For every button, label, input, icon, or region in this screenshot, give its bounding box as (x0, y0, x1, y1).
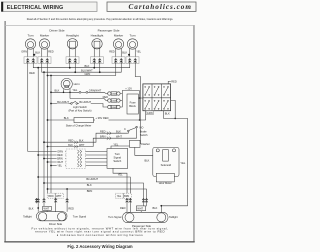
junction dot BLK passenger (128, 54, 130, 56)
svg-text:WHT: WHT (56, 195, 62, 198)
wire BRN/WHT butt row (47, 134, 137, 148)
state of charge meter row (47, 91, 140, 123)
svg-text:BLK: BLK (29, 206, 34, 210)
solenoid box SOL (153, 147, 179, 176)
svg-text:10 AMP: 10 AMP (111, 106, 118, 109)
svg-text:BLK: BLK (153, 206, 158, 210)
svg-text:GRN: GRN (147, 111, 153, 115)
wire RED/BLK butt row to brake switch (43, 129, 127, 143)
wire marker-D left lead to BLU/WHT bus (42, 64, 122, 73)
svg-text:ELECTRICAL WIRING: ELECTRICAL WIRING (7, 5, 63, 11)
boxed WHT label passenger (136, 206, 145, 211)
svg-text:BLU/WHT: BLU/WHT (79, 100, 91, 104)
svg-text:RED: RED (171, 80, 177, 84)
wire taillight feed verticals (37, 68, 39, 199)
svg-text:RED: RED (68, 206, 74, 210)
TSS connector dashed box (66, 149, 86, 169)
svg-text:BLK: BLK (85, 64, 90, 68)
fuse F1 (108, 92, 120, 96)
svg-text:YEL: YEL (180, 161, 185, 165)
svg-text:Fig. 2 Accessory Wiring Diagr: Fig. 2 Accessory Wiring Diagram (67, 244, 132, 249)
butt connector label box YEL BRN passenger (115, 193, 131, 198)
svg-text:RED: RED (120, 206, 126, 210)
svg-text:WHT: WHT (116, 134, 122, 138)
svg-text:RED: RED (103, 95, 109, 99)
wire horn BLK row (51, 91, 79, 93)
wire fuse block to key switch (140, 97, 143, 99)
svg-text:BLK: BLK (87, 183, 92, 187)
TSS input wires with labels (28, 152, 107, 167)
svg-text:Headlight: Headlight (91, 34, 104, 38)
bus BLK bottom (44, 183, 144, 198)
wire turn-D right lead to BLK bus corner (33, 64, 130, 68)
svg-text:WHT: WHT (79, 144, 85, 147)
svg-text:♦ Indicates butt connection wi: ♦ Indicates butt connection within wirin… (57, 233, 143, 237)
svg-text:Read all of Section X and this: Read all of Section X and this section b… (27, 18, 174, 21)
page frame right bar (193, 25, 195, 242)
harness connector boxes (24, 57, 139, 64)
page frame top line (4, 24, 194, 27)
brake switch BS1 (124, 126, 143, 139)
svg-text:BLK: BLK (79, 140, 84, 143)
flasher box FL (130, 140, 150, 147)
lamp L5 marker passenger (113, 34, 123, 58)
svg-text:BLK: BLK (68, 144, 73, 147)
TSS connector arrows (78, 150, 82, 167)
svg-text:BLK: BLK (145, 159, 150, 163)
svg-text:RED: RED (68, 140, 73, 143)
wire BLK key switch bottom to right drop (161, 111, 187, 213)
svg-text:RED: RED (48, 50, 54, 54)
driver taillight housing (37, 212, 68, 221)
svg-text:BLK: BLK (165, 112, 170, 116)
svg-text:C: C (124, 127, 126, 131)
TSS wire labels (57, 150, 66, 167)
hour meter box HM (156, 173, 174, 185)
svg-text:WHT: WHT (137, 208, 143, 211)
svg-text:RED: RED (29, 71, 35, 75)
wire horn YEL drop to RED row (69, 92, 71, 98)
svg-text:BRN: BRN (124, 195, 129, 198)
wire flasher bottom to solenoid (135, 147, 153, 155)
svg-text:Turn Signal: Turn Signal (73, 214, 87, 218)
bus BRN bottom (48, 189, 147, 198)
svg-text:Solenoid: Solenoid (161, 163, 172, 167)
wire turn-P right lead YEL to long vertical (135, 64, 140, 144)
junction dots on buses (37, 67, 100, 77)
svg-text:State of Charge Meter: State of Charge Meter (66, 124, 92, 128)
bus BLU/WHT bottom (38, 177, 130, 198)
svg-text:Driver Side: Driver Side (49, 28, 65, 32)
svg-text:BLU/WHT: BLU/WHT (81, 69, 93, 73)
wire marker-D right lead to GRN bus (47, 64, 116, 76)
svg-text:Flasher: Flasher (141, 142, 150, 146)
svg-text:+ 36V RED: + 36V RED (95, 116, 108, 120)
connector terminals (26, 58, 136, 63)
svg-text:Hour Meter: Hour Meter (159, 181, 172, 185)
svg-text:Turn: Turn (27, 34, 33, 38)
junction dot BLK driver (33, 54, 35, 56)
svg-text:WHT: WHT (57, 160, 63, 164)
svg-text:Headlight: Headlight (66, 34, 79, 38)
junction dots bottom buses (37, 176, 68, 190)
wire ORN/WHT to fuse 1 (88, 92, 108, 93)
svg-text:Marker: Marker (40, 34, 49, 38)
svg-text:BLK: BLK (122, 51, 127, 55)
fuse F3 (108, 105, 120, 109)
svg-text:Cartaholics.com: Cartaholics.com (128, 3, 192, 11)
lamp L2 marker driver (39, 34, 49, 58)
light switch row BLU/WHT (50, 100, 108, 107)
svg-text:10 AMP: 10 AMP (111, 100, 118, 103)
passenger taillight housing (123, 212, 169, 222)
lamp L6 turn passenger (127, 34, 137, 58)
svg-text:Switch: Switch (140, 133, 148, 137)
svg-text:BLK: BLK (64, 116, 69, 120)
svg-text:RED: RED (109, 50, 115, 54)
svg-text:GRN: GRN (57, 150, 63, 154)
svg-text:Horn: Horn (74, 82, 81, 86)
svg-text:BLK: BLK (55, 89, 60, 93)
wire headlight leads drop to buses (69, 64, 71, 68)
svg-text:YEL: YEL (118, 172, 123, 176)
driver taillight connector terminals (35, 198, 68, 203)
svg-text:Signal: Signal (114, 156, 122, 160)
svg-text:BRN: BRN (48, 195, 53, 198)
svg-text:Marker: Marker (114, 34, 123, 38)
svg-text:BLK: BLK (35, 51, 40, 55)
svg-text:10 AMP: 10 AMP (111, 93, 118, 96)
wire RED feed to driver turn signal (66, 189, 68, 198)
svg-text:Turn Signal: Turn Signal (108, 215, 122, 219)
svg-text:+ 12V: + 12V (125, 87, 132, 91)
svg-text:YEL: YEL (117, 195, 122, 198)
wire YEL below TSS (113, 168, 127, 198)
wire RED key switch top (168, 81, 171, 84)
svg-text:NO: NO (140, 126, 144, 130)
svg-text:(Part of Key Switch): (Part of Key Switch) (69, 108, 92, 112)
lamp L3 headlight driver (66, 34, 79, 58)
wire turn-D left lead GRN drops (27, 64, 29, 152)
wire YEL into flasher (111, 142, 130, 148)
svg-text:YEL: YEL (72, 88, 77, 92)
svg-text:BLK: BLK (116, 129, 121, 133)
butt connector label box BRN WHT driver (47, 193, 63, 198)
svg-text:Turn: Turn (129, 34, 135, 38)
svg-text:Fuse: Fuse (130, 100, 136, 104)
lamp L4 headlight passenger (91, 34, 104, 58)
svg-text:Taillight: Taillight (23, 214, 32, 218)
svg-text:BRN: BRN (57, 157, 63, 161)
svg-text:RED: RED (100, 129, 106, 133)
svg-text:Taillight: Taillight (169, 215, 178, 219)
wire GRN key switch bottom (140, 111, 146, 120)
page frame left bar (4, 21, 6, 242)
driver taillight feed wires (37, 203, 39, 211)
wire key switch right to BLK drop (171, 100, 176, 118)
key switch cell contacts (145, 86, 169, 109)
svg-text:YEL: YEL (113, 142, 118, 146)
svg-text:Passenger Side: Passenger Side (98, 28, 120, 32)
svg-text:Switch: Switch (113, 159, 121, 163)
fuse block box (127, 94, 138, 114)
butt connector on horn wire (79, 91, 81, 93)
svg-text:WHT: WHT (44, 208, 50, 211)
lamp L1 turn driver (25, 34, 35, 58)
cartaholics logo box (107, 2, 196, 11)
svg-text:Block: Block (129, 104, 136, 108)
boxed WHT label driver (43, 206, 52, 210)
svg-text:BRN: BRN (100, 134, 106, 138)
svg-text:BRN: BRN (87, 189, 93, 193)
passenger taillight connector terminals (126, 198, 148, 203)
svg-text:Turn: Turn (115, 152, 121, 156)
turn signal switch box TSS (107, 149, 128, 169)
svg-text:BLU/WHT: BLU/WHT (86, 177, 98, 181)
horn H1 (61, 78, 80, 92)
svg-text:BLU/WHT: BLU/WHT (57, 100, 69, 104)
key switch block KS (143, 84, 171, 111)
fuse F2 (70, 95, 120, 103)
page frame bottom line (4, 241, 194, 242)
svg-text:GRN: GRN (21, 50, 27, 54)
svg-text:YEL: YEL (136, 50, 141, 54)
passenger taillight feed wires (126, 203, 128, 212)
svg-text:YEL: YEL (57, 164, 62, 168)
wire fuse outputs to +12V rail (120, 94, 122, 108)
svg-text:RED: RED (57, 153, 63, 157)
svg-text:ORN/WHT: ORN/WHT (89, 88, 102, 92)
header title bar (1, 2, 97, 12)
svg-text:GRN: GRN (85, 72, 91, 76)
